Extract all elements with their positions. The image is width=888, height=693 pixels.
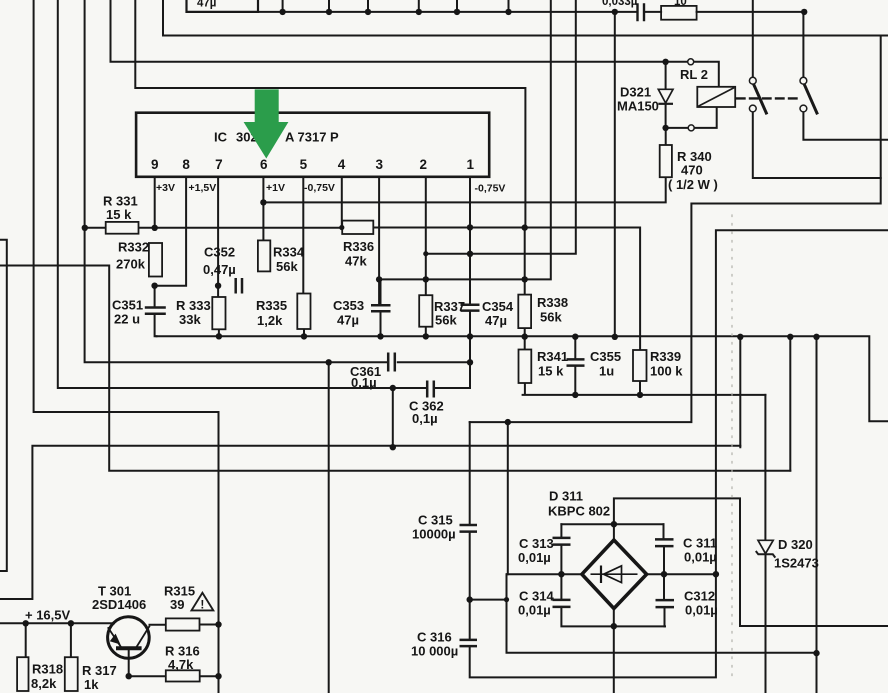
wire right net x691 [470, 36, 881, 423]
svg-text:4: 4 [338, 157, 346, 172]
svg-text:10 000µ: 10 000µ [411, 644, 458, 659]
svg-text:R341: R341 [537, 349, 568, 364]
pin 5 wire [302, 177, 304, 294]
svg-text:10000µ: 10000µ [412, 527, 456, 542]
svg-text:15 k: 15 k [106, 207, 132, 222]
svg-text:0,01µ: 0,01µ [518, 550, 551, 565]
wire riser x507 bridge left [507, 422, 509, 574]
wire left vertical x85 to C361 line [85, 0, 470, 362]
svg-text:R318: R318 [32, 662, 63, 677]
wire rail leg x816 [816, 337, 818, 693]
wire R337 top lead [425, 254, 427, 296]
wire switch right return [803, 111, 888, 139]
wire x615 long vertical (0,033u tap to rail) [614, 12, 616, 337]
svg-text:7: 7 [215, 157, 223, 172]
capacitor C312 plates [656, 600, 675, 607]
svg-text:22 u: 22 u [114, 312, 140, 327]
wire +1V line pin6 to R340 [263, 177, 665, 202]
wire y279 line with riser [379, 0, 551, 279]
svg-text:1: 1 [467, 157, 475, 172]
wire net y88 to pin cluster [135, 0, 525, 228]
svg-text:47µ: 47µ [485, 313, 507, 328]
svg-text:D 320: D 320 [778, 537, 813, 552]
capacitor C313 plates [553, 538, 571, 545]
wire switch right contact upper [802, 12, 804, 78]
svg-text:C351: C351 [112, 298, 143, 313]
resistor 10 [661, 6, 697, 20]
wire collector to R315 [150, 624, 219, 626]
wire stub node D [418, 0, 420, 12]
svg-text:IC: IC [214, 130, 228, 145]
svg-text:+1V: +1V [266, 182, 285, 194]
wire rail riser x740 [739, 337, 741, 447]
resistor R331 [106, 222, 139, 234]
svg-text:39: 39 [170, 597, 184, 612]
svg-text:-0,75V: -0,75V [475, 183, 506, 195]
svg-text:47µ: 47µ [197, 0, 216, 10]
svg-text:0,033µ: 0,033µ [602, 0, 637, 8]
resistor R339 [633, 350, 647, 381]
wire AC jog to bridge top [614, 498, 888, 626]
svg-text:0,1µ: 0,1µ [351, 375, 377, 390]
resistor R334 [258, 240, 270, 271]
svg-text:C354: C354 [482, 299, 514, 314]
svg-text:C353: C353 [333, 298, 364, 313]
relay terminal circle top [688, 59, 694, 65]
svg-text:470: 470 [681, 163, 703, 178]
svg-text:R332: R332 [118, 240, 149, 255]
svg-text:56k: 56k [435, 313, 457, 328]
wire y265 line [0, 266, 790, 471]
svg-text:47k: 47k [345, 254, 367, 269]
pin 4 wire [341, 177, 343, 227]
svg-text:C312: C312 [684, 589, 715, 604]
svg-text:C 313: C 313 [519, 536, 554, 551]
wire left vertical x7 [0, 240, 7, 571]
bridge rectifier D311 diamond [582, 540, 647, 609]
wire left vertical x34 to y412 [34, 0, 219, 693]
wire R335 bottom lead [303, 329, 305, 336]
svg-text:-0,75V: -0,75V [304, 182, 335, 194]
svg-text:56k: 56k [276, 259, 298, 274]
switch right lever [804, 84, 817, 113]
wire switch left return [753, 111, 881, 178]
wire R338 bottom lead / R341 top lead [524, 328, 526, 349]
svg-text:1u: 1u [599, 364, 614, 379]
capacitor C361 plates [388, 353, 395, 372]
wire net B left leg [0, 446, 740, 599]
warning triangle [192, 593, 214, 611]
wire R316 line [129, 675, 219, 677]
pin 7 wire [217, 177, 219, 297]
wire rail riser x790 [789, 337, 791, 471]
capacitor C353 plates [371, 305, 391, 311]
wire C315 C316 branch [470, 230, 888, 677]
svg-text:15 k: 15 k [538, 364, 564, 379]
wire C315 mid tap [470, 599, 507, 601]
capacitor C354 plates [461, 305, 480, 311]
resistor R337 [419, 295, 432, 327]
wire bridge middle rail [507, 573, 716, 575]
capacitor C362 plates [427, 381, 434, 398]
wire bridge top rail [561, 523, 663, 525]
resistor R318 [17, 657, 28, 691]
wire D320 bottom lead [765, 554, 767, 693]
capacitor 0,033u plates [638, 5, 645, 21]
svg-text:0,01µ: 0,01µ [685, 603, 718, 618]
relay coil diagonal [698, 88, 734, 107]
svg-text:D321: D321 [620, 85, 651, 100]
wire C314 branch [561, 574, 665, 626]
wire R317 top lead [70, 623, 72, 657]
wire D320 top line [764, 395, 766, 540]
svg-text:+1,5V: +1,5V [189, 182, 217, 194]
resistor R341 [519, 350, 532, 384]
wire R341 bottom corner to y395 line [523, 383, 766, 395]
pin 1 wire [469, 177, 471, 228]
capacitor C355 plates [567, 359, 585, 365]
svg-text:A 7317 P: A 7317 P [285, 130, 339, 145]
svg-text:R 333: R 333 [176, 298, 211, 313]
wire C312 branch [663, 574, 666, 626]
resistor R332 [149, 243, 162, 277]
svg-text:1k: 1k [84, 677, 99, 692]
svg-text:C355: C355 [590, 349, 621, 364]
svg-text:R339: R339 [650, 349, 681, 364]
wire x470 chain C354 branch [469, 227, 471, 388]
capacitor C316 plates [460, 640, 478, 646]
svg-text:270k: 270k [116, 257, 146, 272]
transistor emitter arrow [110, 634, 121, 645]
svg-text:C352: C352 [204, 245, 235, 260]
wire top bus line1 [258, 11, 804, 13]
wire stub node C [367, 0, 369, 12]
wire stub node A [282, 0, 284, 12]
svg-text:6: 6 [260, 157, 268, 172]
svg-text:10: 10 [674, 0, 687, 8]
svg-text:8,2k: 8,2k [31, 676, 57, 691]
resistor R315 [166, 618, 200, 630]
wire line2 full width [163, 0, 888, 36]
pin numbers [151, 157, 475, 172]
svg-text:5: 5 [300, 157, 308, 172]
svg-text:0,1µ: 0,1µ [412, 411, 438, 426]
wire R331 line y228 [85, 228, 640, 351]
svg-text:0,47µ: 0,47µ [203, 262, 236, 277]
wire relay coil bottom terminal [666, 107, 717, 128]
wire rail y336.6 [157, 336, 888, 421]
svg-text:R338: R338 [537, 295, 568, 310]
svg-text:R336: R336 [343, 239, 374, 254]
svg-text:C 311: C 311 [683, 536, 717, 551]
svg-text:100 k: 100 k [650, 364, 683, 379]
svg-text:( 1/2 W ): ( 1/2 W ) [668, 177, 718, 192]
svg-text:C 315: C 315 [418, 513, 453, 528]
capacitor C351 plates [145, 308, 166, 314]
svg-text:C 316: C 316 [417, 630, 452, 645]
svg-text:R334: R334 [273, 245, 305, 260]
resistor R317 [65, 657, 78, 691]
resistor R335 [297, 294, 310, 330]
switch left lever [754, 84, 767, 113]
svg-text:KBPC 802: KBPC 802 [548, 504, 610, 519]
wire R318 top lead [25, 623, 27, 657]
wire C362 dot drop x392.8 [392, 388, 394, 447]
resistor R340 [660, 145, 672, 177]
wire C355 branch [574, 337, 576, 395]
pin 9 wire [154, 177, 156, 228]
transistor Q301 circle [108, 617, 150, 659]
svg-text:RL 2: RL 2 [680, 67, 708, 82]
svg-text:3: 3 [375, 157, 383, 172]
wire C311 branch [663, 524, 666, 574]
wire stub node F [508, 0, 510, 12]
resistor R316 [166, 670, 200, 681]
svg-text:MA150: MA150 [617, 99, 659, 114]
svg-text:8: 8 [182, 157, 190, 172]
pin 2 wire [425, 177, 427, 254]
voltage labels [156, 182, 505, 195]
svg-text:R 317: R 317 [82, 663, 117, 678]
capacitor C311 plates [655, 539, 674, 546]
resistor R336 [342, 221, 373, 234]
green arrow pointer [244, 89, 289, 158]
svg-text:C 314: C 314 [519, 589, 554, 604]
wire C353 leads [380, 279, 382, 336]
diode D321 [658, 89, 673, 104]
svg-text:+3V: +3V [156, 182, 175, 194]
wire base stem T301 [128, 649, 130, 677]
wire R340 bottom to D321 [665, 62, 667, 145]
relay RL2 coil box [697, 87, 735, 107]
svg-text:4,7k: 4,7k [168, 657, 194, 672]
pin 8 wire [155, 177, 187, 286]
svg-text:1,2k: 1,2k [257, 313, 283, 328]
wire line3 [111, 0, 719, 87]
wire stub node E [456, 0, 458, 12]
svg-text:0,01µ: 0,01µ [518, 603, 551, 618]
wire C361 line vertical x328 down [328, 362, 330, 693]
svg-text:R335: R335 [256, 298, 287, 313]
wire +16.5V rail [0, 622, 114, 624]
relay terminal circle bottom [688, 125, 694, 131]
IC box U302 [136, 113, 489, 177]
capacitor C315 plates [460, 525, 478, 532]
wire R339 bottom lead [639, 381, 641, 395]
wire R338 top lead [524, 228, 526, 295]
switch contact circles [749, 77, 756, 84]
IC U302 label [214, 130, 339, 145]
wire bridge bottom vertex leg [613, 609, 615, 693]
wire C351 branch [155, 286, 157, 337]
capacitor C352 plates [236, 278, 242, 294]
svg-text:33k: 33k [179, 312, 201, 327]
wire bridge top vertex stub [613, 524, 615, 540]
wire R333 bottom lead [218, 329, 220, 336]
wire stub node B [328, 0, 330, 12]
svg-text:0,01µ: 0,01µ [684, 550, 717, 565]
svg-text:!: ! [200, 598, 204, 612]
relay action dashed link [737, 97, 800, 99]
svg-text:2SD1406: 2SD1406 [92, 597, 146, 612]
svg-text:9: 9 [151, 157, 159, 172]
svg-text:+ 16,5V: + 16,5V [25, 608, 71, 623]
wire switch left contact upper [752, 0, 754, 78]
resistor R333 [212, 297, 225, 329]
svg-text:1S2473: 1S2473 [774, 556, 819, 571]
svg-text:D 311: D 311 [549, 489, 583, 504]
wire C313 branch [560, 524, 562, 574]
pin 3 wire [378, 177, 380, 305]
wire DC minus lower rail y653 [507, 574, 817, 653]
transformer box 47u (cut at top) [187, 0, 259, 12]
svg-text:2: 2 [420, 157, 428, 172]
svg-text:47µ: 47µ [337, 313, 359, 328]
diode D320 zener [756, 540, 776, 557]
wire R337 bottom lead [425, 327, 427, 337]
wire left vertical x59 to C362 line [58, 0, 470, 388]
capacitor C314 plates [553, 600, 571, 607]
resistor R338 [518, 295, 531, 329]
fold mark dotted [731, 215, 733, 680]
svg-text:56k: 56k [540, 310, 562, 325]
pin 6 wire [262, 177, 264, 241]
wire pin2 line y253.7 [426, 0, 576, 254]
clipped top labels [197, 0, 687, 10]
